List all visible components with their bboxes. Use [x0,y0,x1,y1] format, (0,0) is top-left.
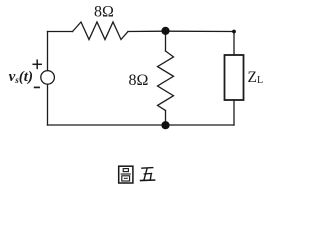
wire right branch upper [233,32,235,56]
wire top middle to node A [128,30,166,32]
top-right corner blob [232,30,236,34]
plus sign of source [33,60,41,68]
svg-text:ZL: ZL [248,69,264,86]
glyph WU bottom bar [140,179,156,182]
wire resistor R2 to node B [165,111,167,126]
minus sign of source [35,86,40,88]
wire left branch lower [47,84,49,125]
svg-text:8Ω: 8Ω [129,72,149,89]
glyph TU middle bar [121,173,131,175]
node A junction dot [161,27,169,35]
wire top-left horizontal [48,31,73,33]
glyph WU right vertical [150,174,151,181]
glyph TU inner top small box [123,169,128,172]
caption figure five (drawn glyphs) [119,166,156,183]
wire node A to top-right corner [166,30,235,32]
wire bottom [48,124,235,126]
glyph WU middle bar [144,172,153,175]
glyph TU innermost tick [124,177,128,179]
wire left branch upper [47,32,49,71]
svg-text:8Ω: 8Ω [94,4,114,21]
glyph TU (figure) outer box [119,166,133,183]
node B junction dot [161,121,169,129]
glyph WU left vertical [144,168,147,180]
glyph TU inner bottom box [122,176,130,181]
svg-text:vs(t): vs(t) [9,69,33,85]
wire right branch lower [233,100,235,125]
voltage source vs(t) circle [41,71,55,85]
resistor R1 8ohm horizontal zigzag [73,22,129,40]
load ZL rectangle [225,55,244,100]
wire node A down to resistor R2 [165,31,167,51]
glyph WU (five) top bar [141,167,153,170]
resistor R2 8ohm vertical zigzag [158,51,174,111]
